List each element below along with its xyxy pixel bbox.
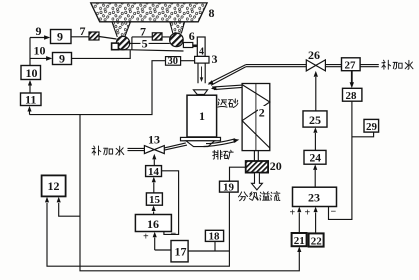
funnel cup on tank bbox=[193, 90, 207, 95]
pipe to valve 13 bbox=[128, 148, 145, 150]
pedestal right bbox=[183, 43, 192, 48]
box 25 bbox=[303, 111, 327, 127]
label paikuang bbox=[213, 150, 234, 159]
svg-text:13: 13 bbox=[148, 133, 160, 147]
svg-text:2: 2 bbox=[259, 106, 265, 120]
wire 14 to valve 13 bbox=[153, 160, 155, 166]
svg-text:16: 16 bbox=[147, 217, 159, 231]
svg-text:27: 27 bbox=[345, 60, 357, 72]
line 5 between feeders bbox=[129, 42, 170, 44]
actuator box 9 lower bbox=[53, 53, 72, 65]
svg-text:7: 7 bbox=[80, 24, 86, 38]
box 28 bbox=[343, 88, 362, 101]
svg-text:21: 21 bbox=[294, 235, 305, 247]
hatch box 7a bbox=[89, 32, 99, 40]
controller box 10 bbox=[21, 66, 41, 80]
wire 30 to 3 bbox=[181, 60, 195, 62]
classifier axis bbox=[255, 84, 257, 151]
svg-text:28: 28 bbox=[346, 90, 358, 102]
wire 15 to 14 bbox=[153, 183, 155, 193]
svg-text:25: 25 bbox=[309, 113, 321, 127]
wire 17 to 16 bbox=[155, 249, 171, 251]
chute 4 bbox=[197, 37, 205, 56]
wire 10 feed bbox=[30, 38, 49, 66]
tap to box 12 right input bbox=[59, 203, 80, 216]
label fansha bbox=[218, 99, 238, 108]
water pipe from valve 26 bbox=[246, 65, 306, 67]
svg-text:8: 8 bbox=[209, 6, 215, 20]
hatch box 7b bbox=[152, 33, 162, 40]
box 15 bbox=[146, 193, 162, 205]
pipe below 3 bbox=[198, 63, 205, 83]
wire 27 to 28 bbox=[351, 71, 353, 84]
svg-text:30: 30 bbox=[168, 56, 179, 67]
classifier 2 bbox=[242, 84, 270, 151]
svg-text:10: 10 bbox=[26, 66, 38, 80]
duct to box 20 bbox=[254, 151, 258, 161]
tank flange bbox=[181, 137, 221, 140]
pipe 26 to 27 bbox=[325, 65, 341, 67]
wire 9 lower box to band bbox=[72, 50, 131, 58]
svg-text:11: 11 bbox=[25, 93, 36, 107]
wire 19 to 12 bbox=[47, 192, 229, 266]
svg-text:14: 14 bbox=[148, 166, 160, 178]
svg-text:10: 10 bbox=[34, 44, 46, 58]
box 19 bbox=[220, 181, 239, 192]
svg-text:6: 6 bbox=[189, 29, 195, 43]
svg-text:18: 18 bbox=[209, 231, 221, 243]
actuator box 9 upper bbox=[51, 30, 72, 44]
label fenjiyiliu bbox=[238, 192, 280, 201]
wire 29 elbow bbox=[352, 132, 374, 137]
svg-text:9: 9 bbox=[36, 24, 42, 38]
label 2 bbox=[258, 106, 265, 120]
svg-text:22: 22 bbox=[311, 236, 323, 248]
ore bin 8 bbox=[91, 3, 207, 22]
box 29 bbox=[364, 119, 379, 132]
svg-text:1: 1 bbox=[199, 109, 205, 123]
svg-text:26: 26 bbox=[308, 48, 320, 62]
valve 13 bbox=[144, 146, 164, 154]
pipe slope into funnel bbox=[209, 65, 246, 86]
wire 18 stub bbox=[214, 242, 216, 252]
hopper right bbox=[170, 22, 185, 34]
svg-text:12: 12 bbox=[48, 179, 60, 193]
wire 20 to 19 bbox=[230, 167, 246, 181]
svg-text:20: 20 bbox=[270, 159, 282, 173]
wire 23 to 24 bbox=[314, 170, 316, 187]
svg-text:19: 19 bbox=[223, 182, 235, 194]
box 23 bbox=[293, 187, 337, 206]
tank base cone bbox=[186, 141, 215, 147]
svg-text:15: 15 bbox=[149, 194, 161, 206]
svg-text:23: 23 bbox=[308, 191, 320, 205]
box 18 bbox=[205, 230, 223, 241]
wire 25 to valve 26 bbox=[315, 77, 317, 111]
svg-text:17: 17 bbox=[175, 245, 187, 259]
pedestal left bbox=[112, 43, 119, 50]
wire 11 to 10 bbox=[29, 85, 31, 93]
makeup water label left bbox=[92, 146, 124, 155]
pipe 27 to text bbox=[360, 65, 379, 67]
hatch box 20 bbox=[246, 161, 268, 173]
svg-text:+: + bbox=[290, 208, 296, 219]
wire 9 feed bbox=[30, 37, 47, 39]
svg-text:9: 9 bbox=[57, 30, 63, 44]
box 21 bbox=[292, 233, 307, 246]
branch wire down to 21 bbox=[80, 115, 299, 271]
wire 9 box to hatch 7a to feeder bbox=[71, 37, 117, 40]
inner flow arrow bbox=[201, 67, 203, 78]
tank 1 bbox=[187, 95, 217, 137]
valve 26 bbox=[306, 60, 325, 71]
box 17 bbox=[171, 241, 188, 262]
svg-text:24: 24 bbox=[310, 153, 322, 165]
thick bar feeder to chute 4 bbox=[193, 44, 202, 47]
box 22 bbox=[309, 233, 324, 246]
feeder disc left (5) bbox=[116, 36, 129, 49]
under line bbox=[112, 50, 184, 51]
wire 24 to 25 bbox=[314, 133, 316, 150]
feeder disc right (6) bbox=[170, 33, 184, 47]
svg-text:−: − bbox=[331, 207, 337, 218]
svg-text:5: 5 bbox=[142, 37, 148, 51]
wire 17 right to node bbox=[188, 250, 229, 252]
svg-text:7: 7 bbox=[140, 25, 146, 39]
svg-text:+: + bbox=[143, 232, 149, 243]
svg-text:+: + bbox=[305, 208, 311, 219]
wire 16 to 15 bbox=[153, 212, 155, 215]
wire from 30 to 11 bbox=[29, 111, 31, 115]
weigher box 3 bbox=[195, 56, 209, 63]
svg-text:29: 29 bbox=[366, 121, 378, 133]
return sand wedge bbox=[212, 85, 242, 90]
pipe valve 13 to tank base bbox=[164, 143, 187, 150]
box 30 bbox=[166, 57, 181, 66]
makeup water label right bbox=[382, 60, 413, 69]
wire 28 down to 23 minus bbox=[329, 101, 352, 219]
box 11 bbox=[21, 93, 42, 106]
svg-text:9: 9 bbox=[59, 52, 65, 66]
svg-text:3: 3 bbox=[212, 52, 218, 66]
box 16 bbox=[135, 215, 171, 232]
hopper left bbox=[112, 22, 131, 37]
classifier zigzag bbox=[242, 85, 270, 148]
box 12 bbox=[42, 175, 66, 196]
discharge spout bbox=[204, 139, 237, 147]
box 27 bbox=[342, 58, 361, 71]
band top line bbox=[132, 37, 170, 50]
box 14 bbox=[146, 166, 162, 177]
box 24 bbox=[304, 150, 326, 164]
overflow hollow arrow bbox=[252, 173, 263, 190]
